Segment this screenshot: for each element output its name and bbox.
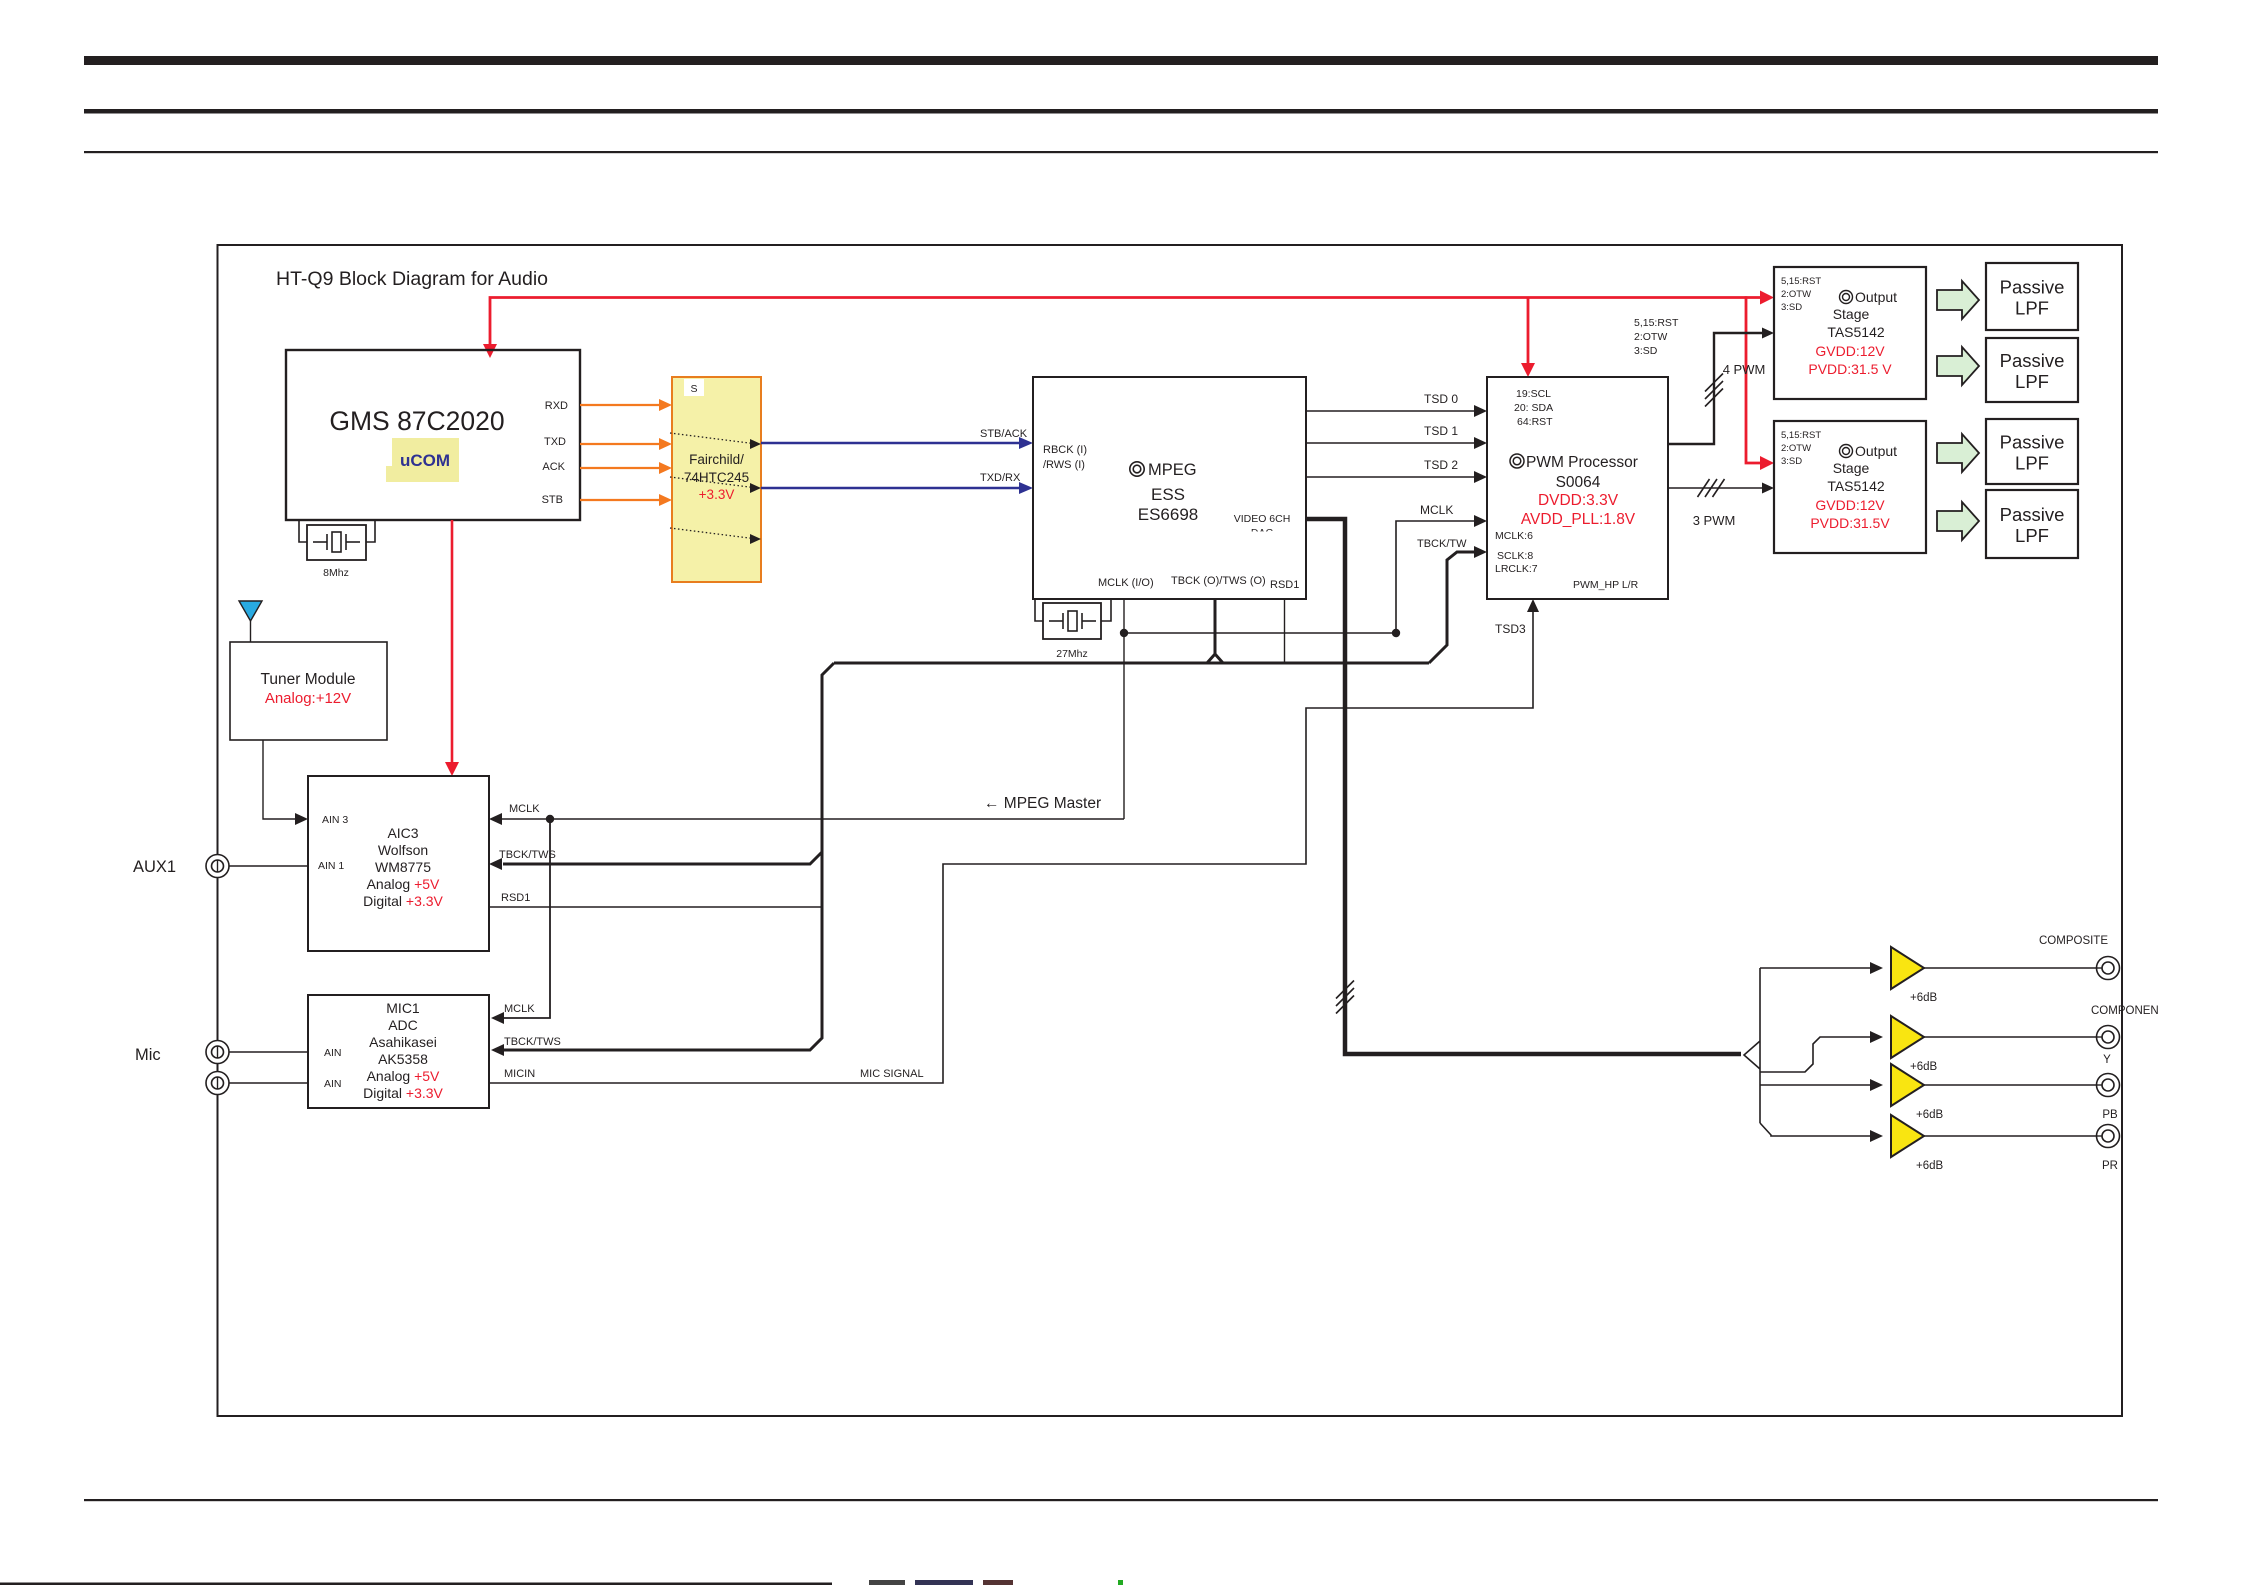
wire AUX1 to AIN1	[229, 865, 308, 867]
wire MCLK to PWM	[1396, 521, 1477, 633]
bus hash 4PWM	[1705, 374, 1723, 392]
wire TSD 2	[1306, 476, 1477, 478]
svg-text:Tuner Module: Tuner Module	[260, 671, 355, 688]
level shifter 74HTC245 box	[672, 377, 761, 582]
wire to amp 2	[1760, 1037, 1871, 1072]
arrow TSD3 into PWM	[1527, 599, 1539, 612]
svg-text:PB: PB	[2102, 1109, 2118, 1121]
bus funnel split	[1744, 1041, 1760, 1069]
crystal X2 symbol	[1049, 620, 1063, 622]
arrow into amp 1	[1870, 962, 1883, 974]
svg-text:S0064: S0064	[1556, 474, 1601, 491]
svg-text:AIN: AIN	[324, 1078, 342, 1090]
svg-text:MCLK: MCLK	[509, 803, 540, 815]
crystal X1 8Mhz box	[307, 525, 366, 560]
uCOM highlight	[392, 438, 459, 482]
passive LPF 1	[1986, 263, 2078, 330]
antenna	[239, 601, 262, 621]
svg-text:ES6698: ES6698	[1138, 505, 1199, 524]
svg-text:Passive: Passive	[2000, 432, 2065, 453]
svg-text:2:OTW: 2:OTW	[1781, 443, 1811, 454]
svg-text:GMS 87C2020: GMS 87C2020	[329, 406, 504, 436]
bus hash 3PWM	[1698, 479, 1710, 497]
wire blue TXD/RX	[761, 487, 1022, 490]
red arrow into output stage 1	[1760, 291, 1774, 305]
wire Mic1 to AIN	[229, 1051, 308, 1053]
svg-text:RBCK (I): RBCK (I)	[1043, 444, 1087, 456]
svg-text:19:SCL: 19:SCL	[1516, 388, 1551, 400]
pwm S0064 box	[1487, 377, 1668, 599]
svg-text:4 PWM: 4 PWM	[1723, 362, 1766, 377]
svg-text:TSD3: TSD3	[1495, 622, 1526, 636]
crystal X1 8Mhz bracket	[299, 521, 307, 542]
svg-text:S: S	[690, 383, 697, 395]
svg-text:LPF: LPF	[2015, 298, 2049, 319]
svg-text:3:SD: 3:SD	[1781, 456, 1802, 467]
diagram frame	[218, 245, 2123, 1416]
junction MCLK AIC3	[546, 815, 554, 823]
arrow TBCK/TWS into AIC3	[489, 858, 502, 870]
arrow TBCK/TW into PWM	[1474, 546, 1487, 558]
svg-text:PWM_HP L/R: PWM_HP L/R	[1573, 579, 1639, 591]
svg-text:AK5358: AK5358	[378, 1051, 428, 1067]
svg-text:RXD: RXD	[545, 400, 568, 412]
arrow into amp 3	[1870, 1079, 1883, 1091]
red arrow into AIC3	[445, 762, 459, 776]
svg-text:TXD: TXD	[544, 436, 566, 448]
wire VIDEO 6CH thick	[1306, 519, 1741, 1054]
svg-text:MCLK: MCLK	[504, 1003, 535, 1015]
wire tuner to AIC3 AIN3	[263, 740, 296, 819]
svg-text:ESS: ESS	[1151, 485, 1185, 504]
page edge cutoff bar	[0, 1583, 832, 1585]
svg-text:AVDD_PLL:1.8V: AVDD_PLL:1.8V	[1521, 511, 1636, 528]
wire MCLK net	[500, 818, 1124, 820]
svg-text:ADC: ADC	[388, 1017, 418, 1033]
crystal X2 bracket	[1035, 600, 1043, 621]
passive LPF 2	[1986, 338, 2078, 402]
wire to amp 4	[1760, 1123, 1871, 1136]
wire amp 1 to jack	[1924, 967, 2103, 969]
svg-text:TBCK/TW: TBCK/TW	[1417, 538, 1467, 550]
svg-text:VIDEO 6CH: VIDEO 6CH	[1234, 513, 1291, 525]
svg-text:COMPOSITE: COMPOSITE	[2039, 935, 2108, 947]
red arrow into output stage 2	[1760, 456, 1774, 470]
wire orange RXD	[580, 404, 661, 406]
svg-text:/RWS (I): /RWS (I)	[1043, 459, 1085, 471]
svg-text:Fairchild/: Fairchild/	[689, 452, 744, 467]
svg-text:LPF: LPF	[2015, 371, 2049, 392]
green arrow 1	[1937, 281, 1979, 319]
svg-text:STB/ACK: STB/ACK	[980, 428, 1028, 440]
svg-text:TAS5142: TAS5142	[1827, 478, 1885, 494]
svg-text:uCOM: uCOM	[400, 451, 450, 470]
wire TBCK/TWS bus	[503, 663, 834, 1050]
svg-text:8Mhz: 8Mhz	[323, 567, 349, 579]
passive LPF 4	[1986, 490, 2078, 558]
wire red reset bus	[490, 298, 1746, 353]
svg-text:2:OTW: 2:OTW	[1634, 331, 1667, 343]
wire RSD1 MPEG down	[1284, 599, 1286, 663]
svg-text:TBCK/TWS: TBCK/TWS	[499, 849, 556, 861]
wire orange ACK	[580, 467, 661, 469]
svg-text:PWM Processor: PWM Processor	[1526, 454, 1638, 471]
svg-text:Stage: Stage	[1833, 460, 1870, 476]
wire MIC SIGNAL	[489, 610, 1533, 1083]
wire TSD 1	[1306, 442, 1477, 444]
wire amp 3 to jack	[1924, 1084, 2103, 1086]
svg-text:MIC SIGNAL: MIC SIGNAL	[860, 1068, 924, 1080]
svg-text:ACK: ACK	[542, 461, 565, 473]
svg-text:AIC3: AIC3	[387, 825, 418, 841]
svg-text:TSD 0: TSD 0	[1424, 392, 1458, 406]
wire crystal junction	[1123, 599, 1125, 633]
svg-text:Analog +5V: Analog +5V	[367, 876, 440, 892]
svg-text:TSD 2: TSD 2	[1424, 458, 1458, 472]
svg-text:64:RST: 64:RST	[1517, 416, 1553, 428]
bottom rule	[84, 1499, 2158, 1501]
wire orange STB	[580, 499, 661, 501]
arrow MCLK into AIC3	[489, 813, 502, 825]
red arrow into GMS	[483, 344, 497, 358]
svg-text:PR: PR	[2102, 1160, 2118, 1172]
page edge cutoff text fragments	[869, 1580, 905, 1585]
svg-text:MCLK:6: MCLK:6	[1495, 530, 1533, 542]
svg-text:+3.3V: +3.3V	[699, 487, 735, 502]
svg-text:WM8775: WM8775	[375, 859, 431, 875]
svg-text:Wolfson: Wolfson	[378, 842, 428, 858]
svg-text:MPEG: MPEG	[1148, 461, 1197, 479]
svg-text:LRCLK:7: LRCLK:7	[1495, 563, 1538, 575]
connector Mic 2	[206, 1072, 229, 1095]
svg-text:STB: STB	[542, 494, 563, 506]
svg-text:TSD 1: TSD 1	[1424, 424, 1458, 438]
amp +6dB 4	[1891, 1115, 1924, 1157]
svg-text:MCLK (I/O): MCLK (I/O)	[1098, 577, 1154, 589]
adc MIC1 AK5358 box	[308, 995, 489, 1108]
svg-text:← MPEG Master: ← MPEG Master	[984, 795, 1101, 812]
wire TSD 0	[1306, 410, 1477, 412]
red arrow into PWM processor	[1521, 363, 1535, 377]
amp +6dB 3	[1891, 1064, 1924, 1106]
svg-text:AIN 3: AIN 3	[322, 814, 348, 826]
amp +6dB 2	[1891, 1016, 1924, 1058]
svg-text:Output: Output	[1855, 443, 1897, 459]
svg-text:HT-Q9 Block Diagram for Audio: HT-Q9 Block Diagram for Audio	[276, 268, 548, 290]
svg-text:GVDD:12V: GVDD:12V	[1815, 497, 1885, 513]
svg-text:74HTC245: 74HTC245	[684, 470, 749, 485]
wire orange TXD	[580, 443, 661, 445]
svg-text:SCLK:8: SCLK:8	[1497, 550, 1533, 562]
svg-text:PVDD:31.5V: PVDD:31.5V	[1810, 515, 1890, 531]
svg-text:Digital +3.3V: Digital +3.3V	[363, 1085, 443, 1101]
svg-text:5,15:RST: 5,15:RST	[1634, 317, 1679, 329]
svg-text:Stage: Stage	[1833, 306, 1870, 322]
svg-text:LPF: LPF	[2015, 525, 2049, 546]
svg-text:COMPONEN: COMPONEN	[2091, 1005, 2159, 1017]
svg-text:Y: Y	[2103, 1054, 2111, 1066]
svg-text:2:OTW: 2:OTW	[1781, 289, 1811, 300]
svg-text:MIC1: MIC1	[386, 1000, 420, 1016]
wire 4 PWM	[1668, 333, 1764, 444]
connector jack PB	[2097, 1074, 2120, 1097]
wire 3 PWM	[1668, 487, 1766, 489]
bus hash video wire	[1336, 981, 1354, 999]
green arrow 2	[1937, 347, 1979, 385]
mpeg ES6698 box	[1033, 377, 1306, 599]
svg-text:AIN: AIN	[324, 1047, 342, 1059]
svg-text:MCLK: MCLK	[1420, 503, 1453, 517]
svg-text:LPF: LPF	[2015, 453, 2049, 474]
svg-text:GVDD:12V: GVDD:12V	[1815, 343, 1885, 359]
svg-text:TXD/RX: TXD/RX	[980, 472, 1021, 484]
connector AUX1	[206, 855, 229, 878]
amp +6dB 1	[1891, 947, 1924, 989]
top rule thin	[84, 151, 2158, 153]
wire amp 2 to jack	[1924, 1036, 2103, 1038]
wire amp 4 to jack	[1924, 1135, 2103, 1137]
svg-text:TBCK (O)/TWS (O): TBCK (O)/TWS (O)	[1171, 575, 1266, 587]
arrow into amp 2	[1870, 1031, 1883, 1043]
svg-text:3:SD: 3:SD	[1634, 345, 1658, 357]
svg-text:+6dB: +6dB	[1916, 1160, 1944, 1172]
svg-text:Mic: Mic	[135, 1046, 161, 1064]
wire MCLK to MIC1	[503, 819, 550, 1018]
codec AIC3 WM8775 box	[308, 776, 489, 951]
svg-text:3:SD: 3:SD	[1781, 302, 1802, 313]
svg-text:Passive: Passive	[2000, 350, 2065, 371]
label DAC clipped	[1251, 527, 1274, 539]
output stage U2 TAS5142	[1774, 421, 1926, 553]
arrow TBCK/TWS into MIC1	[491, 1044, 504, 1056]
bus chevron TBCK	[1207, 654, 1223, 663]
svg-text:20: SDA: 20: SDA	[1514, 402, 1553, 414]
connector jack PR	[2097, 1125, 2120, 1148]
svg-text:AIN 1: AIN 1	[318, 860, 344, 872]
label MPEG	[1130, 462, 1144, 476]
wire RSD1 AIC3 to bus	[489, 906, 822, 908]
svg-text:Digital +3.3V: Digital +3.3V	[363, 893, 443, 909]
svg-text:+6dB: +6dB	[1916, 1109, 1944, 1121]
wire blue STB/ACK	[761, 442, 1022, 445]
arrow MCLK into PWM	[1474, 515, 1487, 527]
wire to amp 1	[1760, 967, 1871, 969]
dashed arrow 1	[670, 433, 753, 444]
wire Mic2 to AIN	[229, 1082, 308, 1084]
dashed arrow 2	[670, 477, 753, 488]
output stage U1 TAS5142	[1774, 267, 1926, 399]
svg-text:PVDD:31.5 V: PVDD:31.5 V	[1808, 361, 1892, 377]
connector jack COMPOSITE	[2097, 957, 2120, 980]
junction dot MCLK right	[1392, 629, 1400, 637]
svg-text:27Mhz: 27Mhz	[1056, 648, 1088, 660]
wire to amp 3	[1760, 1084, 1871, 1086]
uCOM GMS 87C2020 box	[286, 350, 580, 520]
passive LPF 3	[1986, 419, 2078, 484]
svg-text:TAS5142: TAS5142	[1827, 324, 1885, 340]
svg-text:MICIN: MICIN	[504, 1068, 535, 1080]
svg-text:AUX1: AUX1	[133, 858, 176, 876]
green arrow 4	[1937, 502, 1979, 540]
svg-text:TBCK/TWS: TBCK/TWS	[504, 1036, 561, 1048]
svg-text:5,15:RST: 5,15:RST	[1781, 430, 1821, 441]
tuner module box	[230, 642, 387, 740]
crystal X1 symbol	[313, 541, 327, 543]
svg-text:+6dB: +6dB	[1910, 992, 1938, 1004]
svg-text:5,15:RST: 5,15:RST	[1781, 276, 1821, 287]
svg-text:RSD1: RSD1	[501, 892, 530, 904]
svg-text:RSD1: RSD1	[1270, 579, 1299, 591]
top rule medium	[84, 109, 2158, 114]
arrow into amp 4	[1870, 1130, 1883, 1142]
junction dot crystal	[1120, 629, 1128, 637]
svg-text:Asahikasei: Asahikasei	[369, 1034, 437, 1050]
wire TBCK/TWS branch to AIC3	[503, 852, 822, 864]
svg-text:Analog:+12V: Analog:+12V	[265, 690, 351, 707]
arrow MCLK into MIC1	[491, 1012, 504, 1024]
svg-text:3 PWM: 3 PWM	[1693, 513, 1736, 528]
dashed arrow 3	[670, 528, 753, 539]
label S box	[684, 379, 704, 396]
svg-text:+6dB: +6dB	[1910, 1061, 1938, 1073]
svg-text:Analog +5V: Analog +5V	[367, 1068, 440, 1084]
crystal X2 box	[1043, 603, 1101, 639]
svg-text:Passive: Passive	[2000, 504, 2065, 525]
svg-text:Passive: Passive	[2000, 277, 2065, 298]
top rule thick	[84, 56, 2158, 65]
wire red uCOM to AIC3	[451, 520, 454, 770]
green arrow 3	[1937, 434, 1979, 472]
svg-text:Output: Output	[1855, 289, 1897, 305]
label PWM Processor	[1510, 454, 1524, 468]
connector Mic 1	[206, 1041, 229, 1064]
svg-text:DVDD:3.3V: DVDD:3.3V	[1538, 492, 1619, 509]
connector jack Y	[2097, 1026, 2120, 1049]
